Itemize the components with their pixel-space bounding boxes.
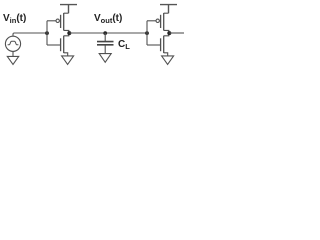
label Vout(t)	[94, 13, 122, 24]
transistor M2 NMOS: source lead down	[64, 53, 68, 56]
transistor M3 PMOS: gate wire	[147, 20, 156, 22]
wire source top to input line	[13, 33, 47, 36]
transistor M3 PMOS: gate bubble	[156, 19, 159, 22]
transistor M3 PMOS: source lead to output node	[164, 30, 169, 33]
ground (below capacitor)	[99, 54, 111, 63]
ground (below source)	[7, 56, 18, 64]
node output of inverter 1 (junction dot)	[67, 31, 71, 35]
ground (inverter 2)	[162, 56, 174, 65]
VDD supply rail T-bar (inverter 2)	[160, 5, 177, 14]
voltage source VIN	[5, 36, 20, 51]
transistor M4 NMOS: source lead down	[164, 53, 168, 56]
transistor M1 PMOS: source lead to output node	[64, 30, 69, 33]
transistor M2 NMOS: drain lead to output node	[64, 33, 69, 36]
wire input vertical inverter 1	[46, 21, 48, 45]
node output of inverter 2 (junction dot)	[167, 31, 171, 35]
node capacitor tap (junction dot)	[103, 31, 107, 35]
transistor M2 NMOS: gate wire	[47, 44, 60, 46]
wire source bottom	[12, 51, 14, 56]
label Vin(t)	[3, 13, 26, 24]
capacitor CL top plate	[97, 41, 114, 43]
sine symbol inside source	[8, 41, 19, 44]
transistor M3 PMOS: gate bar	[160, 15, 162, 28]
transistor M1 PMOS: drain lead to VDD	[64, 12, 69, 14]
transistor M2 NMOS: gate bar	[60, 38, 62, 51]
label CL	[118, 39, 130, 50]
ground (inverter 1)	[62, 56, 74, 65]
transistor M4 NMOS: gate wire	[147, 44, 160, 46]
node input of inverter 1 (junction dot)	[45, 31, 49, 35]
transistor M2 NMOS: channel bar	[63, 36, 65, 54]
wire output of inverter 2 to right edge	[169, 32, 184, 34]
wire down to capacitor	[104, 33, 106, 41]
transistor M3 PMOS: drain lead to VDD	[164, 12, 169, 14]
wire capacitor to ground	[104, 45, 106, 53]
wire output node to inverter 2	[69, 32, 147, 34]
wire input vertical inverter 2	[146, 21, 148, 45]
capacitor CL bottom plate	[97, 44, 114, 46]
transistor M3 PMOS: channel bar	[163, 13, 165, 31]
transistor M4 NMOS: gate bar	[160, 38, 162, 51]
node input of inverter 2 (junction dot)	[145, 31, 149, 35]
transistor M1 PMOS: gate bar	[60, 15, 62, 28]
transistor M4 NMOS: drain lead to output node	[164, 33, 169, 36]
transistor M1 PMOS: gate wire	[47, 20, 56, 22]
transistor M4 NMOS: channel bar	[163, 36, 165, 54]
transistor M1 PMOS: gate bubble	[56, 19, 59, 22]
VDD supply rail T-bar (inverter 1)	[60, 5, 77, 14]
transistor M1 PMOS: channel bar	[63, 13, 65, 31]
